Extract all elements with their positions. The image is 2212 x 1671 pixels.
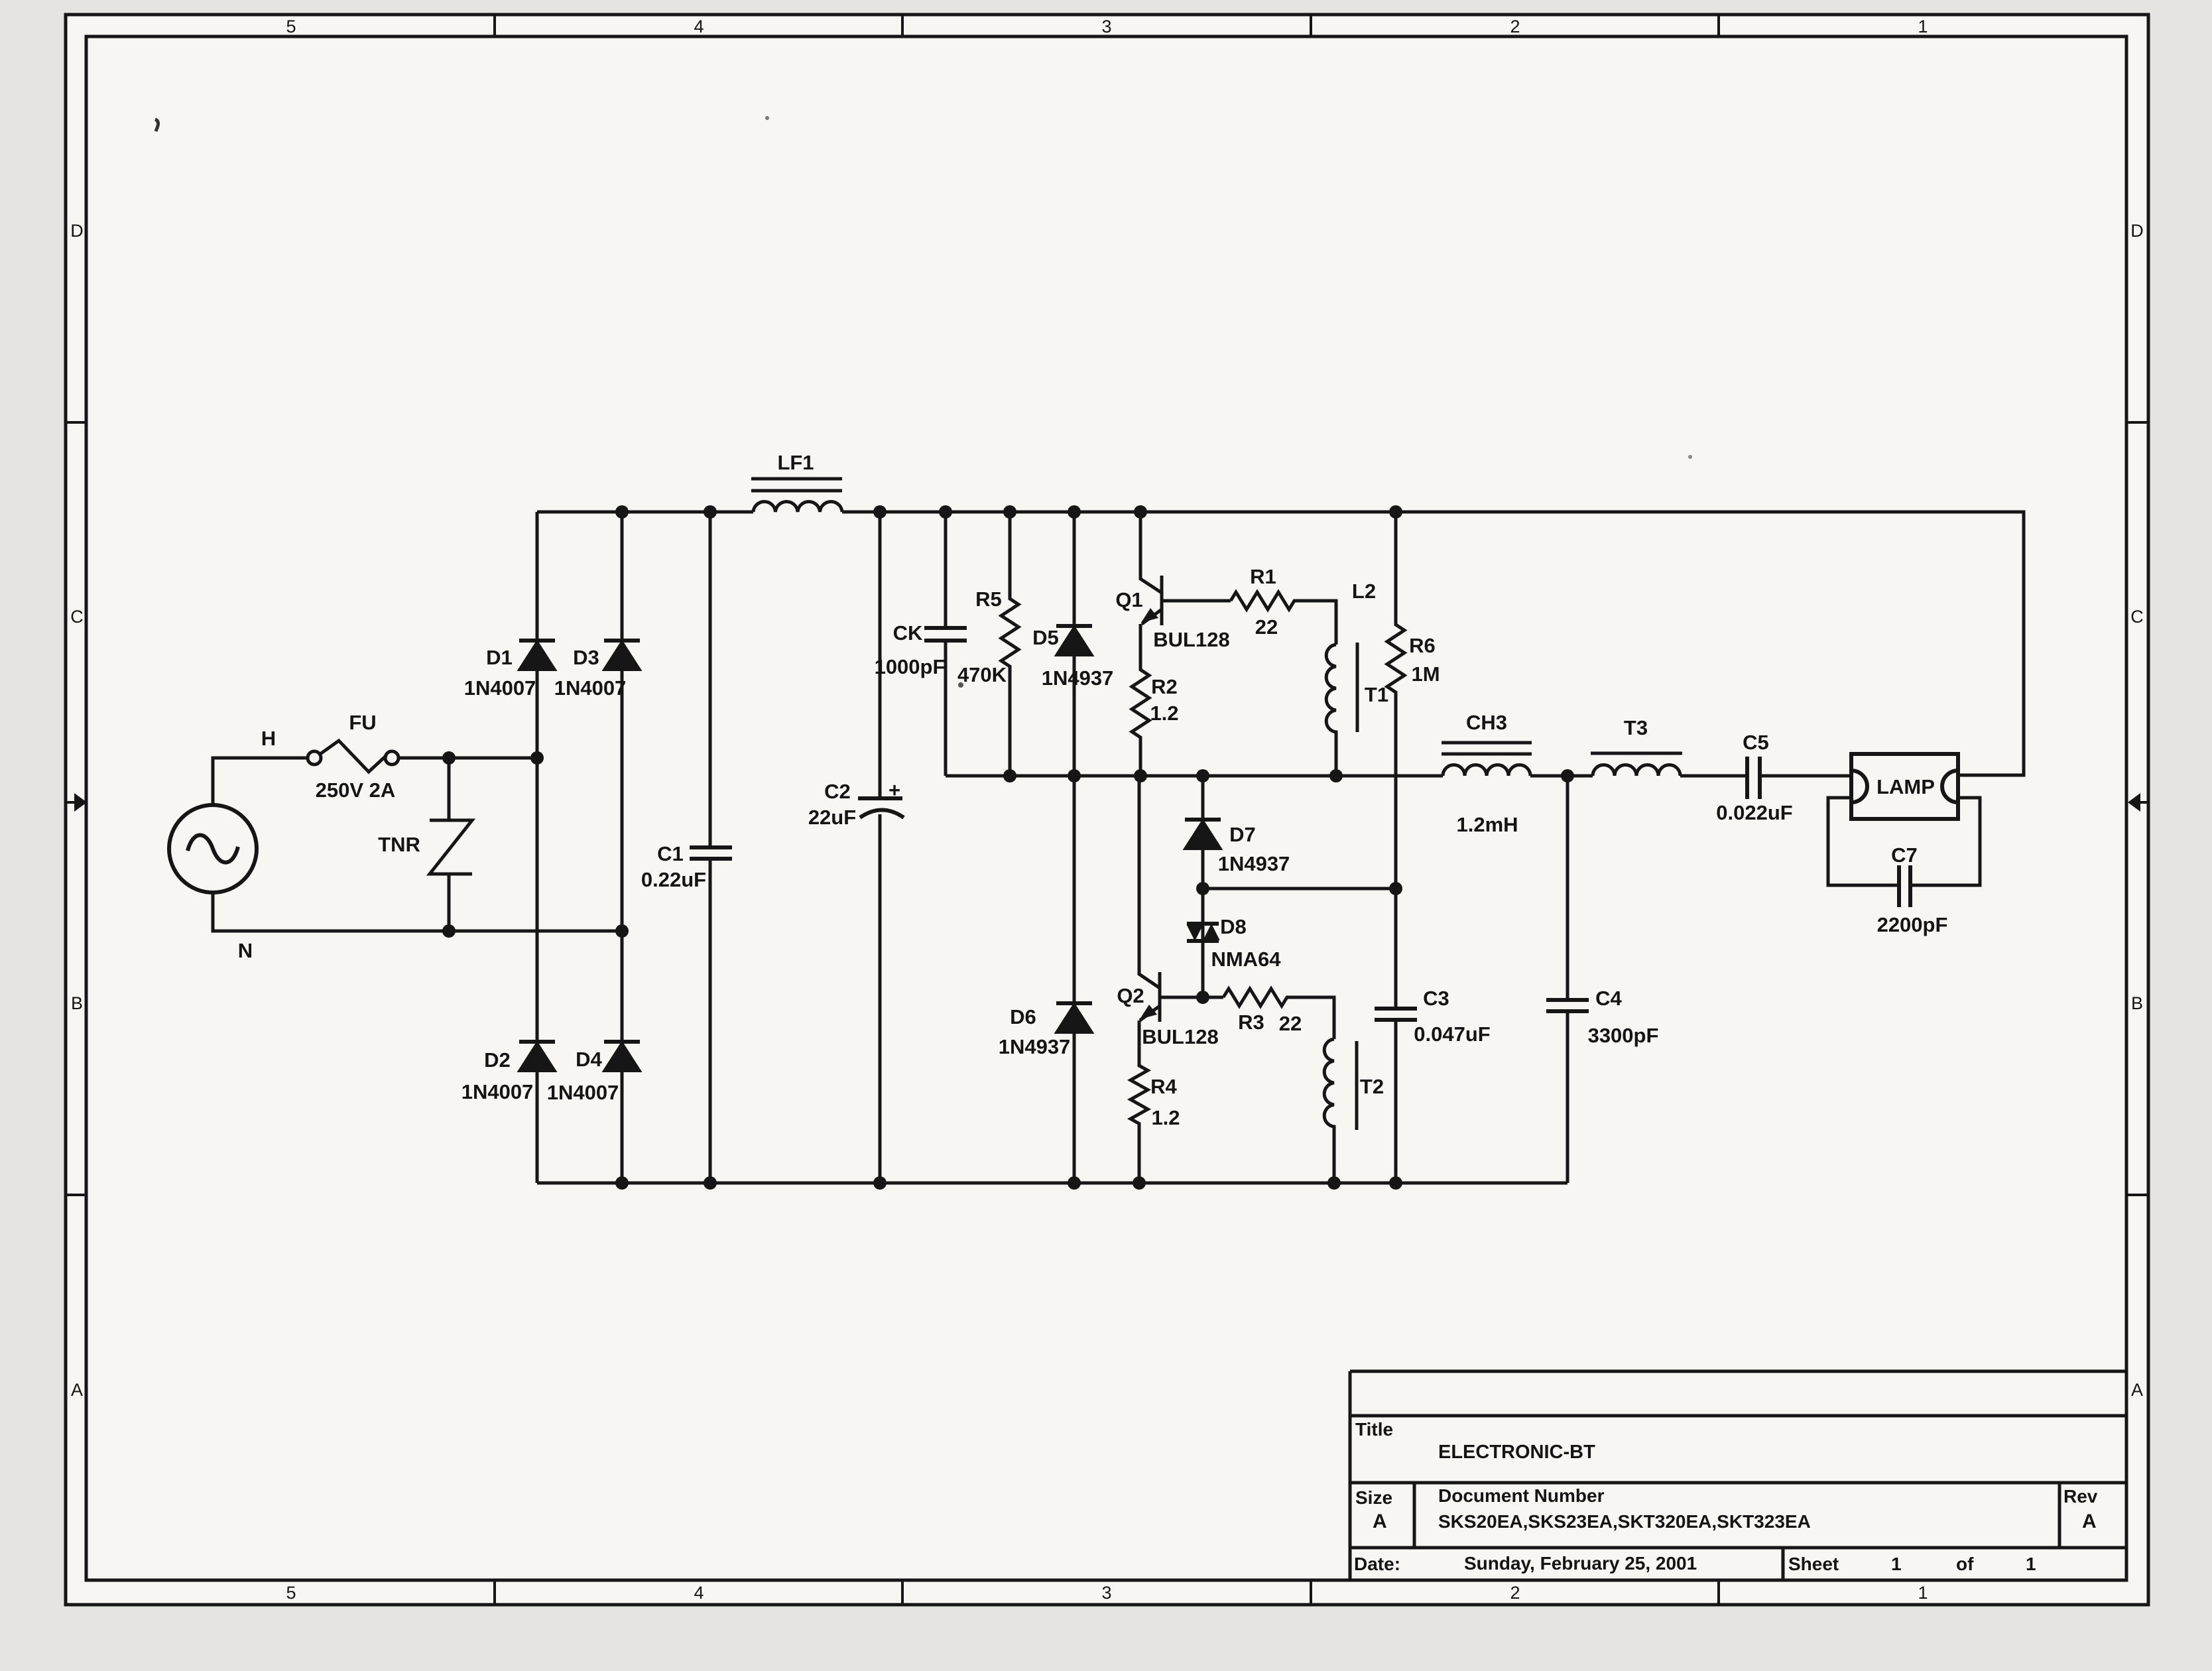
- svg-text:470K: 470K: [957, 663, 1007, 686]
- svg-text:5: 5: [286, 17, 296, 36]
- svg-text:C1: C1: [657, 842, 684, 865]
- svg-text:Q2: Q2: [1117, 984, 1144, 1007]
- svg-text:D: D: [2130, 221, 2144, 241]
- svg-text:SKS20EA,SKS23EA,SKT320EA,SKT32: SKS20EA,SKS23EA,SKT320EA,SKT323EA: [1438, 1511, 1811, 1532]
- svg-text:H: H: [261, 727, 276, 750]
- svg-text:A: A: [71, 1380, 83, 1400]
- svg-text:B: B: [71, 993, 83, 1013]
- svg-text:1: 1: [2026, 1554, 2036, 1574]
- svg-text:1N4937: 1N4937: [1218, 852, 1290, 875]
- svg-text:1N4007: 1N4007: [554, 676, 627, 700]
- svg-text:0.22uF: 0.22uF: [641, 868, 706, 891]
- svg-text:1: 1: [1918, 1583, 1928, 1603]
- svg-text:C5: C5: [1743, 731, 1769, 754]
- svg-text:1: 1: [1918, 17, 1928, 36]
- svg-text:CH3: CH3: [1466, 711, 1507, 734]
- svg-text:D5: D5: [1032, 626, 1059, 649]
- svg-text:CK: CK: [893, 621, 923, 645]
- svg-text:TNR: TNR: [378, 833, 420, 856]
- svg-text:2: 2: [1510, 17, 1520, 36]
- svg-text:Date:: Date:: [1354, 1554, 1400, 1574]
- svg-text:22uF: 22uF: [808, 806, 856, 829]
- svg-text:5: 5: [286, 1583, 296, 1603]
- svg-text:1.2mH: 1.2mH: [1456, 813, 1518, 836]
- svg-text:T2: T2: [1360, 1075, 1384, 1098]
- svg-text:2: 2: [1510, 1583, 1520, 1603]
- svg-text:+: +: [889, 778, 900, 802]
- svg-text:D: D: [70, 221, 84, 241]
- svg-text:T3: T3: [1624, 716, 1648, 739]
- svg-text:D4: D4: [576, 1048, 602, 1071]
- svg-text:A: A: [2131, 1380, 2143, 1400]
- svg-text:2200pF: 2200pF: [1877, 913, 1948, 936]
- svg-text:4: 4: [694, 17, 704, 36]
- svg-text:ELECTRONIC-BT: ELECTRONIC-BT: [1438, 1442, 1595, 1463]
- svg-text:4: 4: [694, 1583, 704, 1603]
- svg-text:Title: Title: [1355, 1419, 1393, 1440]
- svg-text:1: 1: [1891, 1554, 1902, 1574]
- svg-text:D8: D8: [1220, 915, 1247, 938]
- svg-text:1.2: 1.2: [1150, 702, 1178, 725]
- svg-text:Size: Size: [1355, 1487, 1392, 1508]
- svg-text:N: N: [238, 939, 253, 962]
- svg-text:1N4007: 1N4007: [464, 676, 536, 700]
- svg-text:1N4937: 1N4937: [1042, 666, 1114, 690]
- svg-text:1.2: 1.2: [1151, 1106, 1180, 1129]
- svg-text:R6: R6: [1409, 634, 1436, 657]
- svg-text:1N4007: 1N4007: [461, 1080, 534, 1103]
- svg-text:BUL128: BUL128: [1153, 628, 1229, 651]
- svg-text:3300pF: 3300pF: [1588, 1024, 1659, 1047]
- svg-text:Sheet: Sheet: [1788, 1554, 1839, 1574]
- svg-text:C: C: [70, 607, 84, 627]
- svg-text:3: 3: [1101, 17, 1111, 36]
- svg-text:0.047uF: 0.047uF: [1414, 1022, 1490, 1046]
- svg-text:L2: L2: [1352, 580, 1376, 603]
- svg-text:R4: R4: [1150, 1075, 1177, 1098]
- svg-text:Document Number: Document Number: [1438, 1485, 1605, 1506]
- svg-text:R5: R5: [975, 588, 1002, 611]
- svg-text:Q1: Q1: [1115, 588, 1142, 611]
- svg-text:D7: D7: [1229, 823, 1256, 846]
- svg-text:1M: 1M: [1411, 662, 1440, 686]
- svg-text:C: C: [2130, 607, 2144, 627]
- svg-text:NMA64: NMA64: [1211, 948, 1281, 971]
- svg-text:LAMP: LAMP: [1876, 775, 1935, 798]
- svg-text:3: 3: [1101, 1583, 1111, 1603]
- svg-text:Sunday, February 25, 2001: Sunday, February 25, 2001: [1464, 1553, 1697, 1574]
- svg-text:1N4007: 1N4007: [547, 1081, 619, 1104]
- svg-text:D2: D2: [484, 1048, 511, 1072]
- svg-text:R2: R2: [1151, 675, 1178, 698]
- svg-text:D1: D1: [486, 646, 513, 669]
- svg-text:A: A: [1373, 1511, 1387, 1532]
- svg-text:C4: C4: [1595, 987, 1622, 1010]
- svg-text:BUL128: BUL128: [1142, 1025, 1218, 1048]
- svg-text:1N4937: 1N4937: [999, 1035, 1071, 1058]
- svg-text:of: of: [1956, 1554, 1974, 1574]
- svg-text:D3: D3: [573, 646, 599, 669]
- svg-text:22: 22: [1279, 1012, 1302, 1035]
- svg-text:0.022uF: 0.022uF: [1716, 801, 1792, 824]
- svg-text:C7: C7: [1891, 843, 1918, 867]
- svg-text:250V 2A: 250V 2A: [316, 778, 396, 802]
- svg-text:R1: R1: [1250, 565, 1276, 588]
- svg-text:FU: FU: [349, 711, 376, 734]
- svg-text:C2: C2: [824, 780, 851, 803]
- svg-text:1000pF: 1000pF: [875, 655, 946, 678]
- svg-text:LF1: LF1: [777, 451, 814, 474]
- svg-text:B: B: [2131, 993, 2143, 1013]
- svg-text:22: 22: [1255, 615, 1278, 639]
- svg-text:C3: C3: [1423, 987, 1449, 1010]
- svg-text:T1: T1: [1365, 683, 1388, 706]
- svg-text:Rev: Rev: [2063, 1486, 2098, 1507]
- svg-text:A: A: [2082, 1511, 2097, 1532]
- svg-text:R3: R3: [1238, 1011, 1264, 1034]
- svg-text:D6: D6: [1010, 1005, 1036, 1028]
